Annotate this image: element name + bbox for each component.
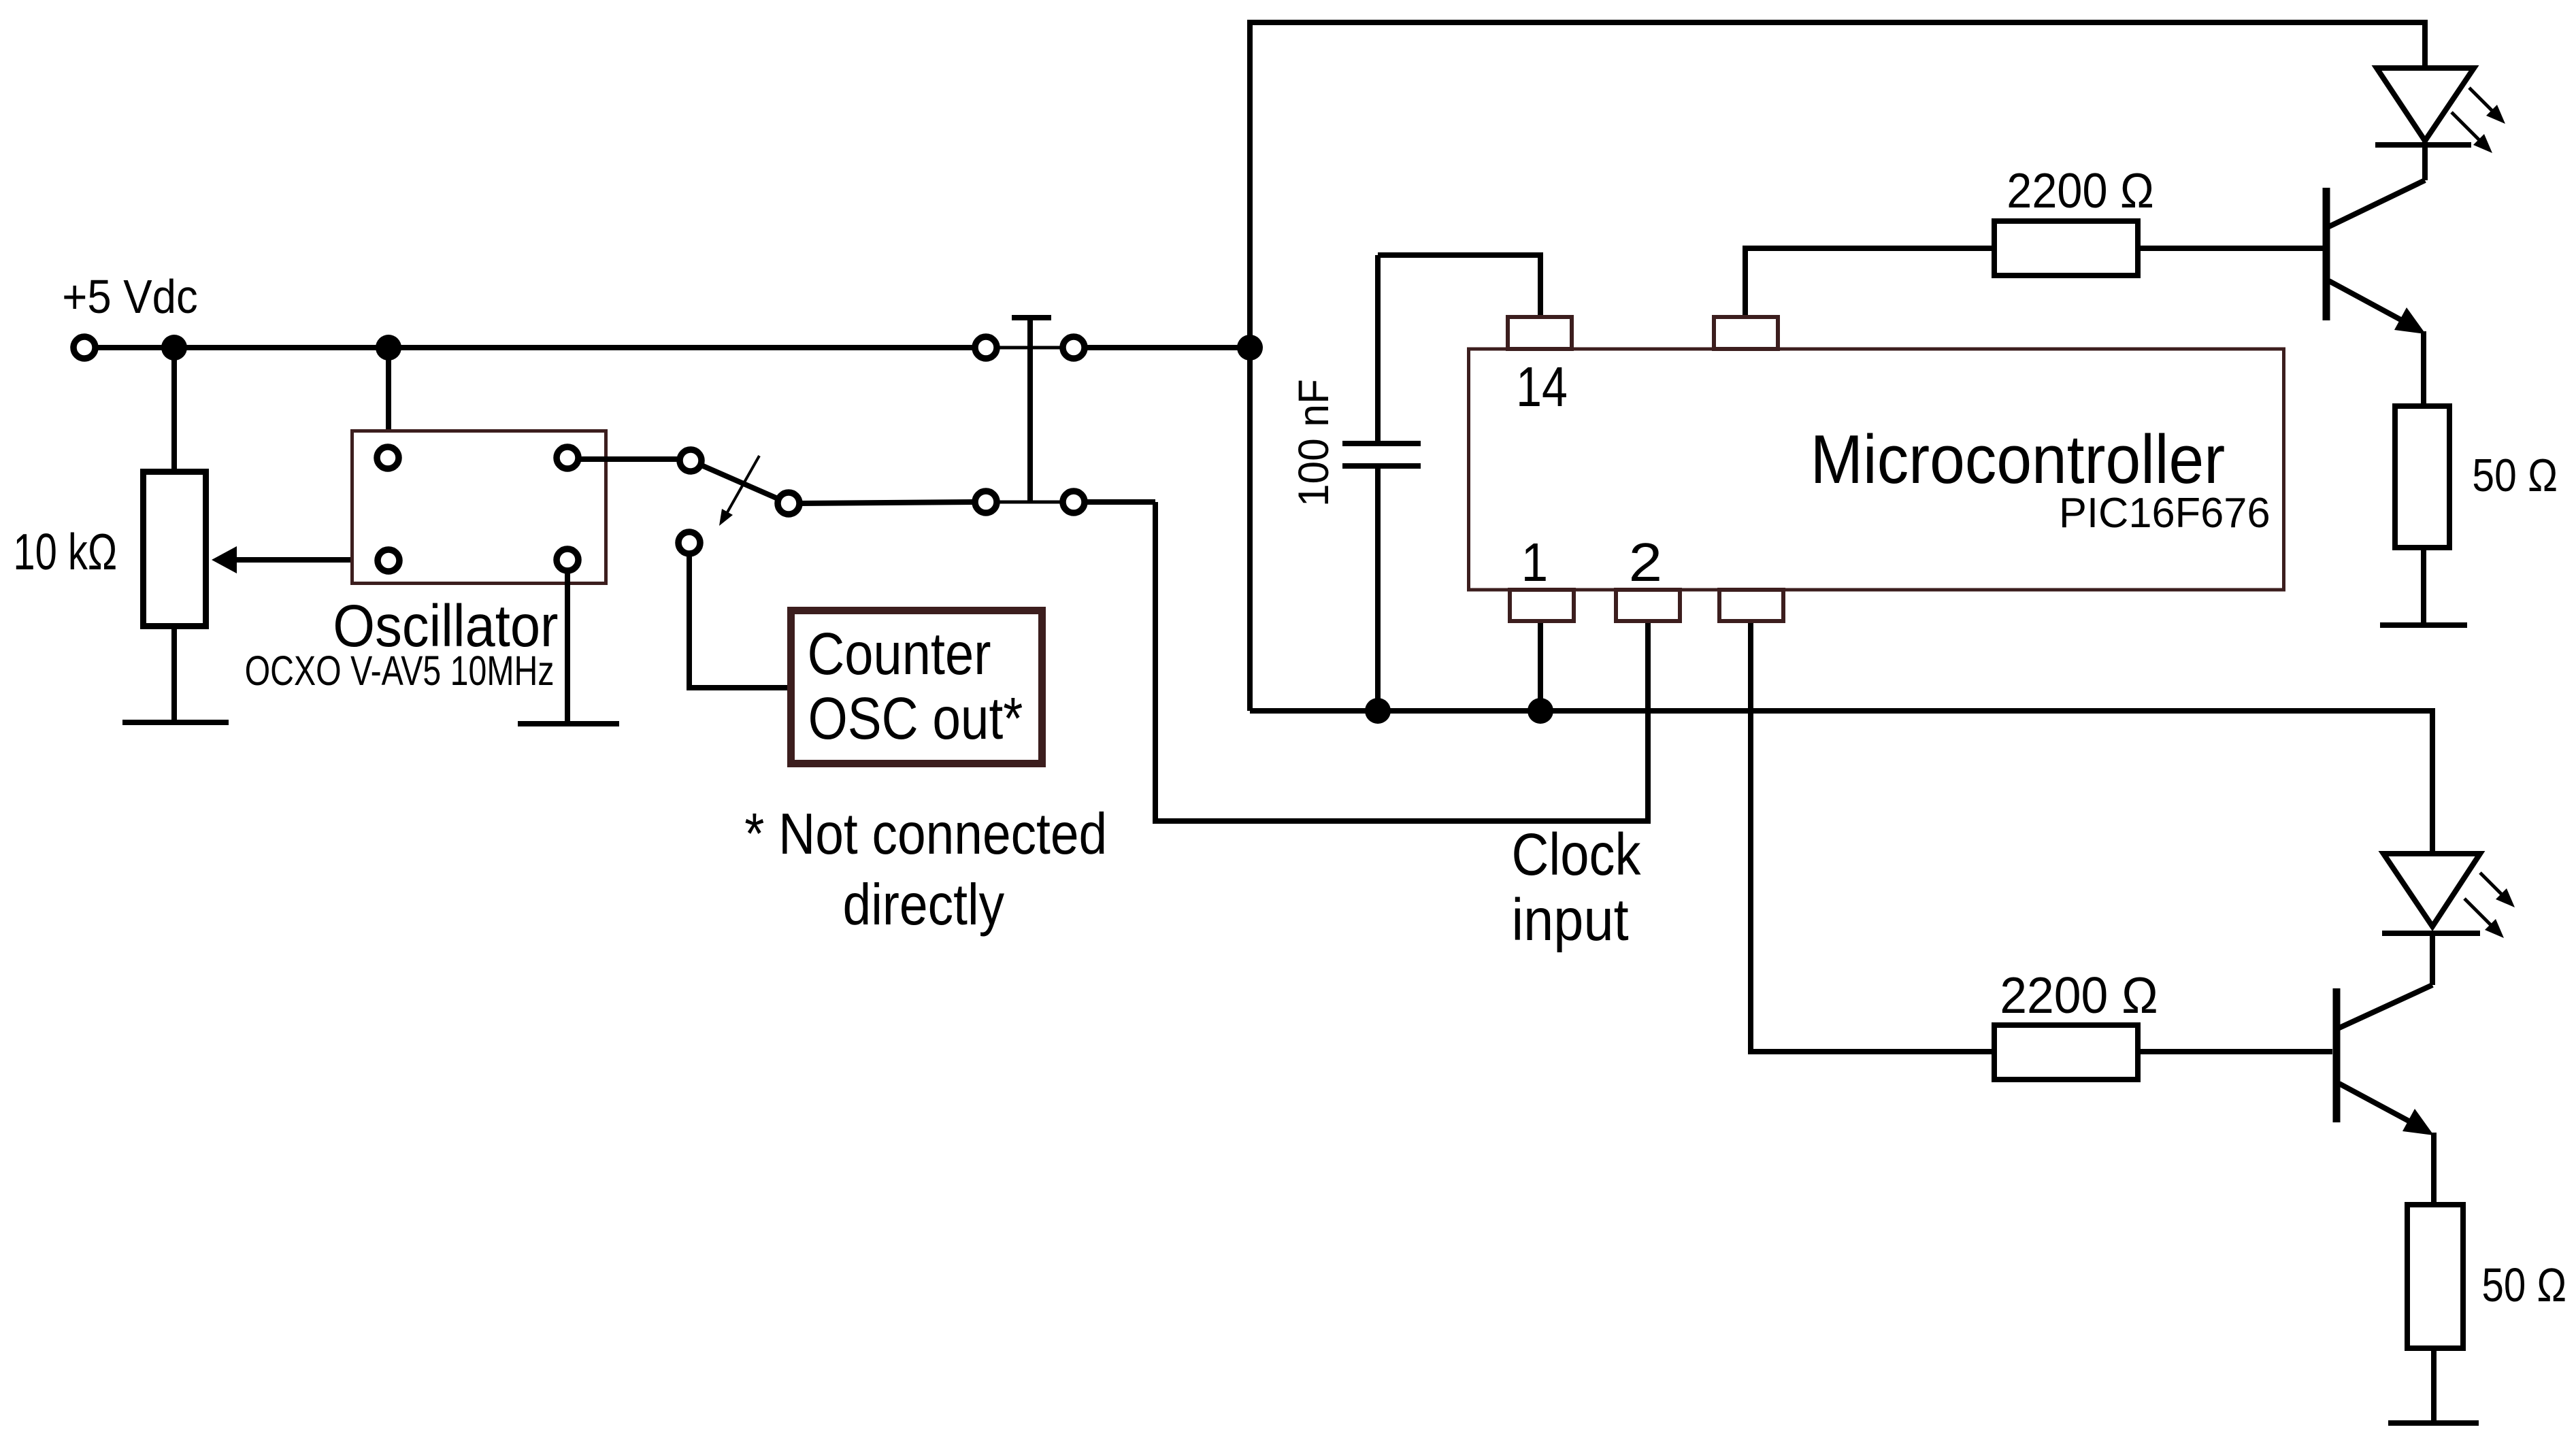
- svg-text:50 Ω: 50 Ω: [2472, 450, 2558, 501]
- svg-text:Microcontroller: Microcontroller: [1811, 422, 2226, 498]
- svg-text:10 kΩ: 10 kΩ: [13, 523, 117, 580]
- svg-text:2200 Ω: 2200 Ω: [2000, 967, 2158, 1024]
- svg-text:2200 Ω: 2200 Ω: [2007, 164, 2154, 218]
- svg-text:+5 Vdc: +5 Vdc: [62, 270, 197, 323]
- svg-text:* Not connected: * Not connected: [744, 802, 1107, 867]
- svg-text:Counter: Counter: [808, 621, 991, 687]
- svg-text:2: 2: [1629, 532, 1662, 592]
- svg-text:Clock: Clock: [1512, 822, 1641, 888]
- svg-text:OCXO V-AV5 10MHz: OCXO V-AV5 10MHz: [245, 648, 555, 694]
- svg-text:1: 1: [1521, 532, 1548, 592]
- svg-text:PIC16F676: PIC16F676: [2059, 490, 2270, 537]
- svg-text:OSC out*: OSC out*: [808, 686, 1023, 752]
- svg-text:input: input: [1512, 887, 1629, 953]
- svg-text:100 nF: 100 nF: [1290, 379, 1338, 507]
- svg-text:14: 14: [1516, 355, 1568, 418]
- svg-text:50 Ω: 50 Ω: [2482, 1258, 2567, 1311]
- svg-text:directly: directly: [843, 873, 1005, 937]
